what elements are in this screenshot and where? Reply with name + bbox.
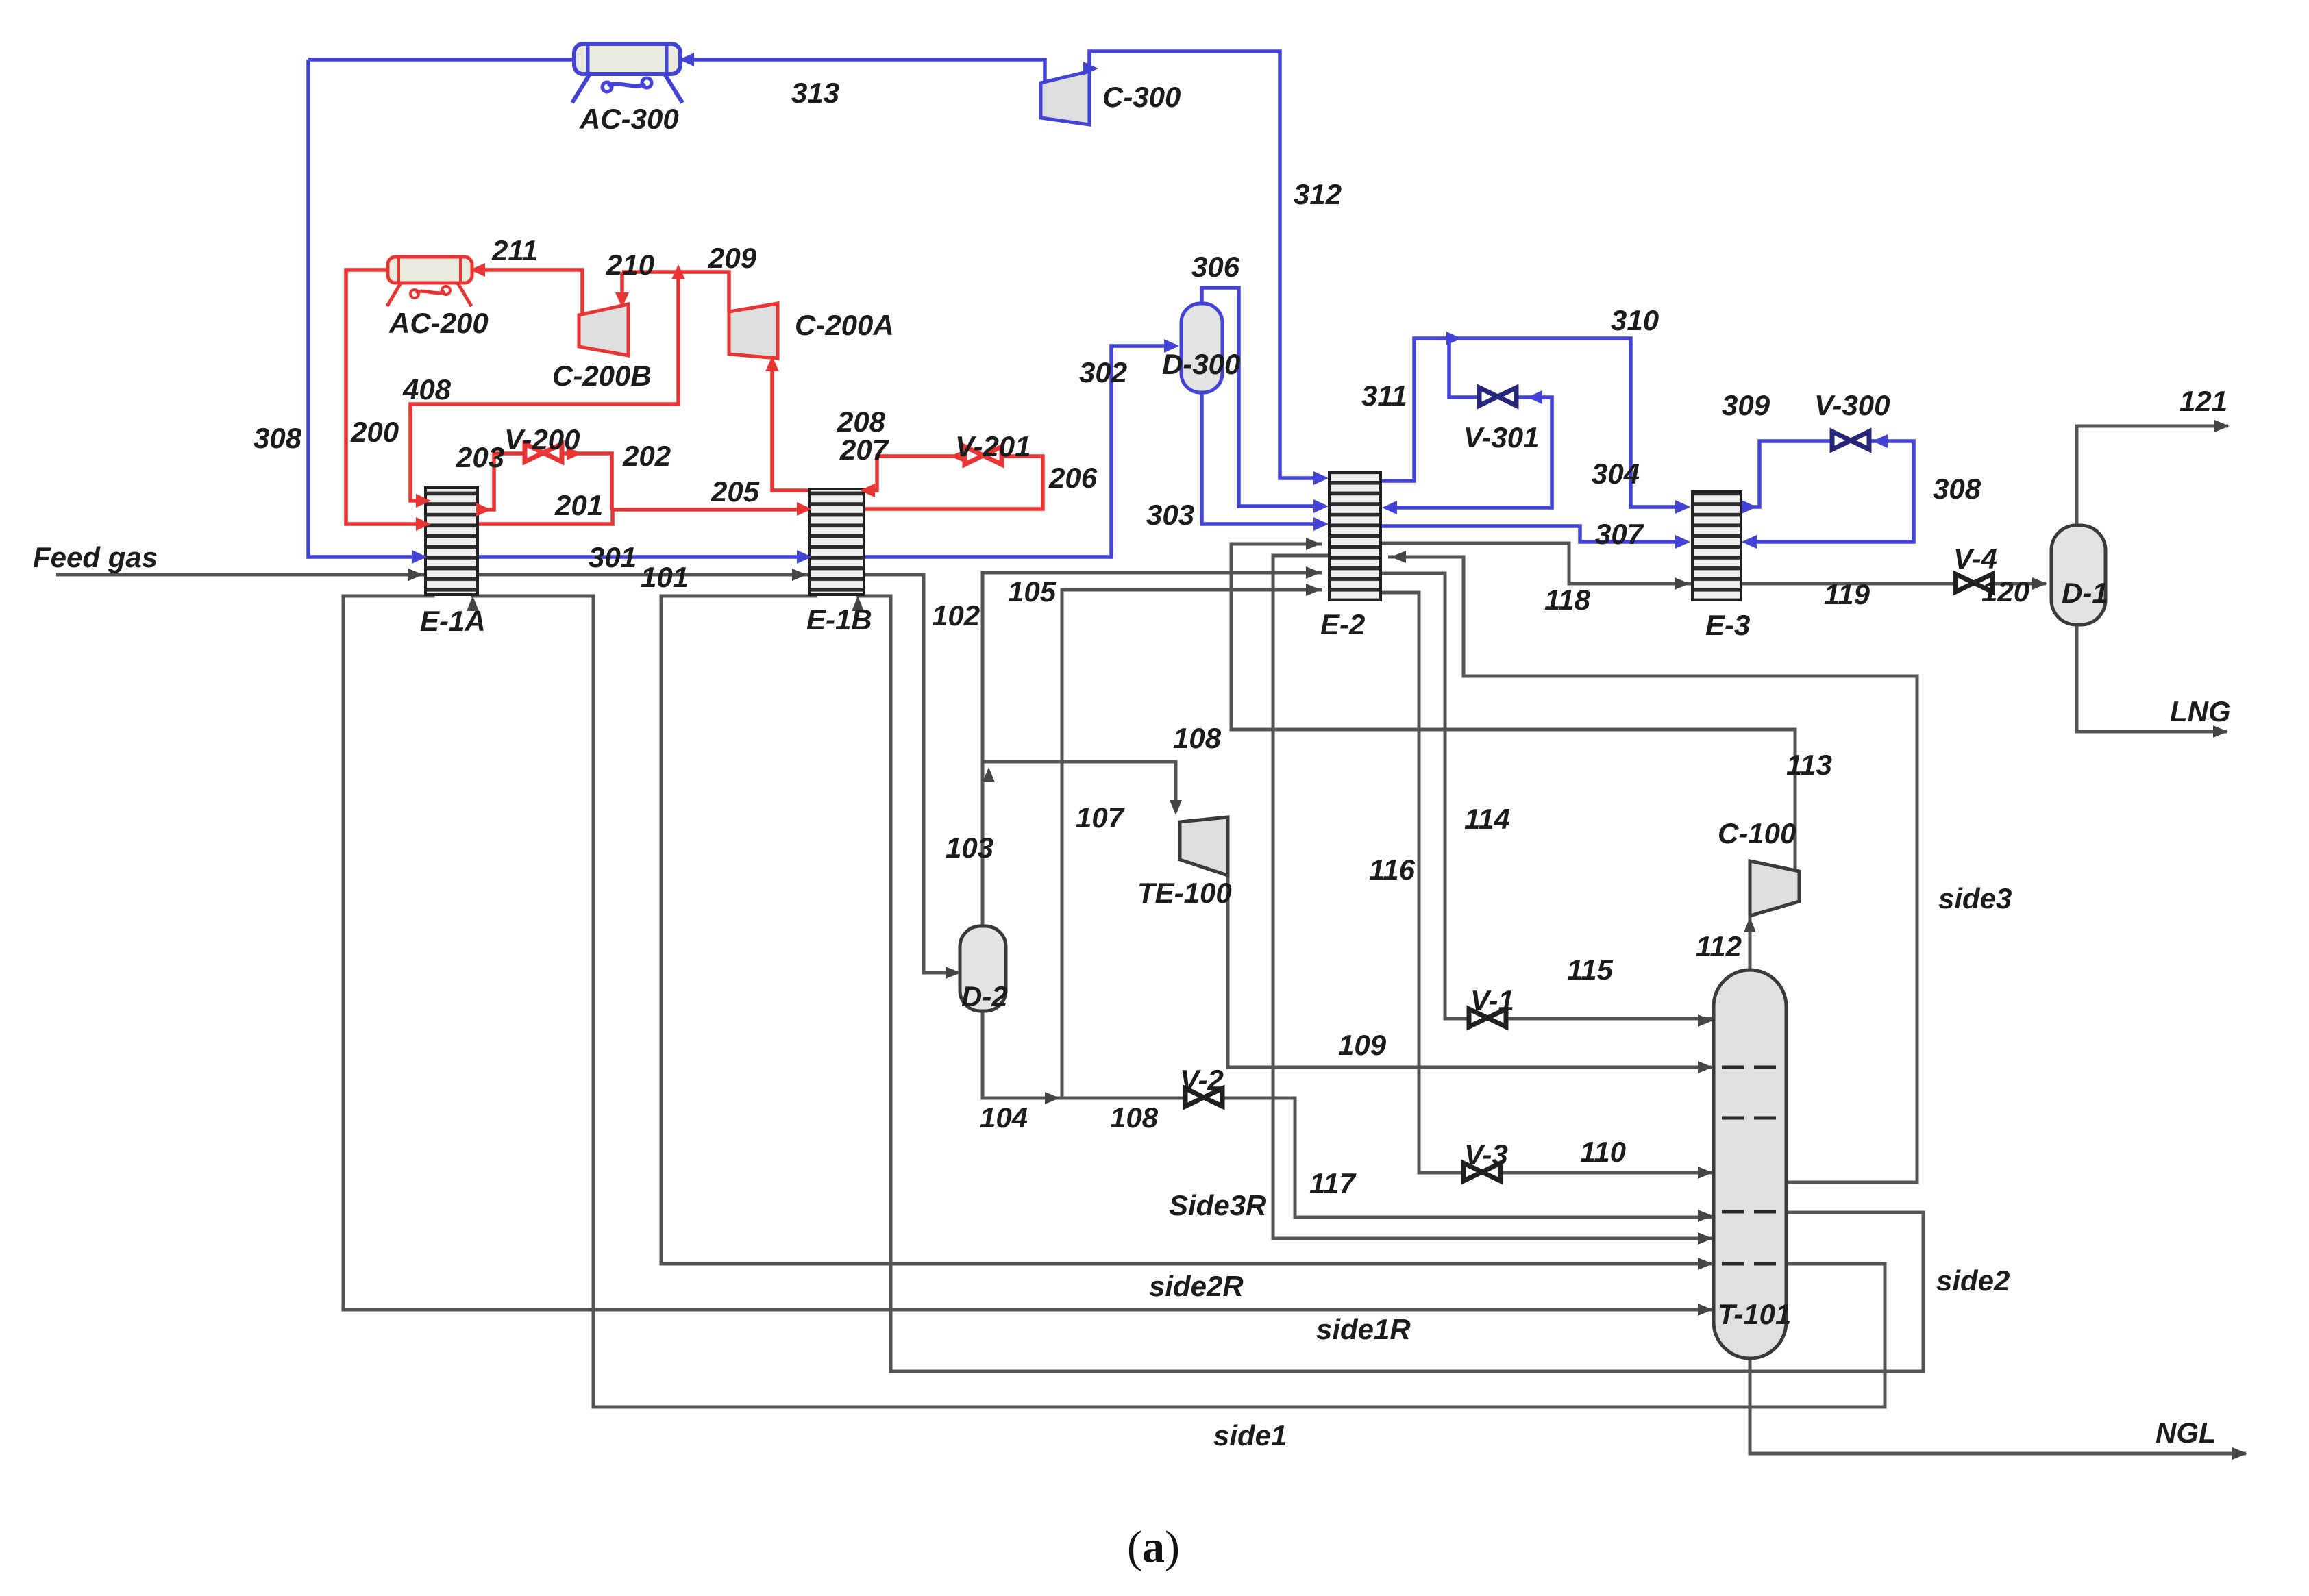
svg-text:307: 307: [1595, 518, 1644, 550]
svg-text:104: 104: [980, 1101, 1028, 1134]
svg-text:117: 117: [1309, 1167, 1357, 1199]
svg-text:side1R: side1R: [1316, 1313, 1411, 1345]
svg-text:201: 201: [554, 489, 603, 521]
svg-text:301: 301: [589, 541, 637, 573]
svg-text:210: 210: [606, 249, 654, 281]
svg-text:211: 211: [491, 234, 538, 266]
svg-text:108: 108: [1173, 722, 1222, 754]
svg-text:303: 303: [1146, 499, 1194, 531]
svg-text:Feed gas: Feed gas: [33, 541, 158, 573]
svg-text:C-200A: C-200A: [795, 309, 894, 341]
svg-text:302: 302: [1079, 356, 1127, 388]
svg-text:(a): (a): [1127, 1522, 1180, 1572]
svg-text:side2R: side2R: [1149, 1270, 1244, 1302]
svg-text:V-300: V-300: [1814, 389, 1890, 421]
svg-text:113: 113: [1786, 749, 1832, 781]
svg-text:V-301: V-301: [1464, 421, 1540, 453]
svg-text:115: 115: [1567, 953, 1614, 986]
svg-text:206: 206: [1048, 462, 1098, 494]
svg-text:V-1: V-1: [1470, 984, 1514, 1017]
svg-text:side1: side1: [1213, 1419, 1287, 1451]
svg-text:203: 203: [456, 441, 504, 473]
svg-text:312: 312: [1294, 178, 1342, 210]
svg-text:110: 110: [1580, 1136, 1626, 1168]
svg-text:Side3R: Side3R: [1169, 1189, 1267, 1221]
svg-text:102: 102: [932, 599, 980, 632]
svg-text:E-1A: E-1A: [420, 605, 486, 637]
svg-text:311: 311: [1361, 379, 1407, 412]
svg-text:408: 408: [402, 373, 452, 406]
svg-text:202: 202: [622, 440, 671, 472]
svg-text:AC-300: AC-300: [579, 103, 679, 135]
svg-text:313: 313: [791, 77, 839, 109]
svg-text:118: 118: [1544, 584, 1591, 616]
svg-text:308: 308: [1933, 473, 1981, 505]
svg-text:121: 121: [2180, 385, 2227, 417]
svg-text:308: 308: [254, 422, 302, 454]
svg-text:NGL: NGL: [2156, 1417, 2217, 1449]
svg-text:V-4: V-4: [1953, 543, 1997, 575]
svg-text:AC-200: AC-200: [388, 307, 489, 339]
svg-text:304: 304: [1592, 458, 1640, 490]
svg-text:109: 109: [1338, 1029, 1387, 1061]
svg-text:V-200: V-200: [504, 423, 580, 456]
svg-text:310: 310: [1611, 304, 1659, 336]
svg-text:120: 120: [1981, 575, 2029, 608]
svg-text:D-2: D-2: [961, 980, 1008, 1012]
svg-text:C-200B: C-200B: [552, 360, 652, 392]
svg-text:207: 207: [839, 434, 889, 466]
svg-text:108: 108: [1110, 1101, 1159, 1134]
svg-text:306: 306: [1191, 251, 1240, 283]
svg-text:C-300: C-300: [1102, 81, 1181, 113]
svg-text:200: 200: [350, 416, 399, 448]
svg-text:105: 105: [1008, 575, 1057, 608]
svg-text:E-1B: E-1B: [806, 603, 872, 636]
svg-text:D-1: D-1: [2062, 577, 2108, 609]
svg-text:112: 112: [1696, 930, 1742, 962]
svg-text:LNG: LNG: [2170, 695, 2231, 727]
svg-text:TE-100: TE-100: [1137, 877, 1232, 909]
svg-text:side2: side2: [1936, 1264, 2010, 1297]
svg-text:T-101: T-101: [1718, 1298, 1791, 1330]
svg-text:103: 103: [946, 832, 993, 864]
svg-text:116: 116: [1369, 853, 1416, 886]
svg-text:101: 101: [641, 561, 689, 593]
svg-text:D-300: D-300: [1162, 348, 1240, 380]
svg-text:V-3: V-3: [1464, 1138, 1508, 1171]
svg-text:107: 107: [1076, 801, 1125, 834]
svg-text:114: 114: [1464, 803, 1510, 835]
svg-text:V-201: V-201: [955, 430, 1031, 462]
svg-text:V-2: V-2: [1180, 1064, 1224, 1096]
svg-text:309: 309: [1722, 389, 1770, 421]
svg-text:119: 119: [1824, 578, 1870, 610]
svg-text:208: 208: [837, 406, 886, 438]
svg-text:E-3: E-3: [1705, 609, 1750, 641]
svg-text:205: 205: [711, 475, 760, 508]
svg-text:side3: side3: [1938, 882, 2012, 914]
svg-text:C-100: C-100: [1718, 817, 1796, 849]
svg-text:209: 209: [708, 242, 757, 274]
svg-text:E-2: E-2: [1320, 608, 1365, 640]
